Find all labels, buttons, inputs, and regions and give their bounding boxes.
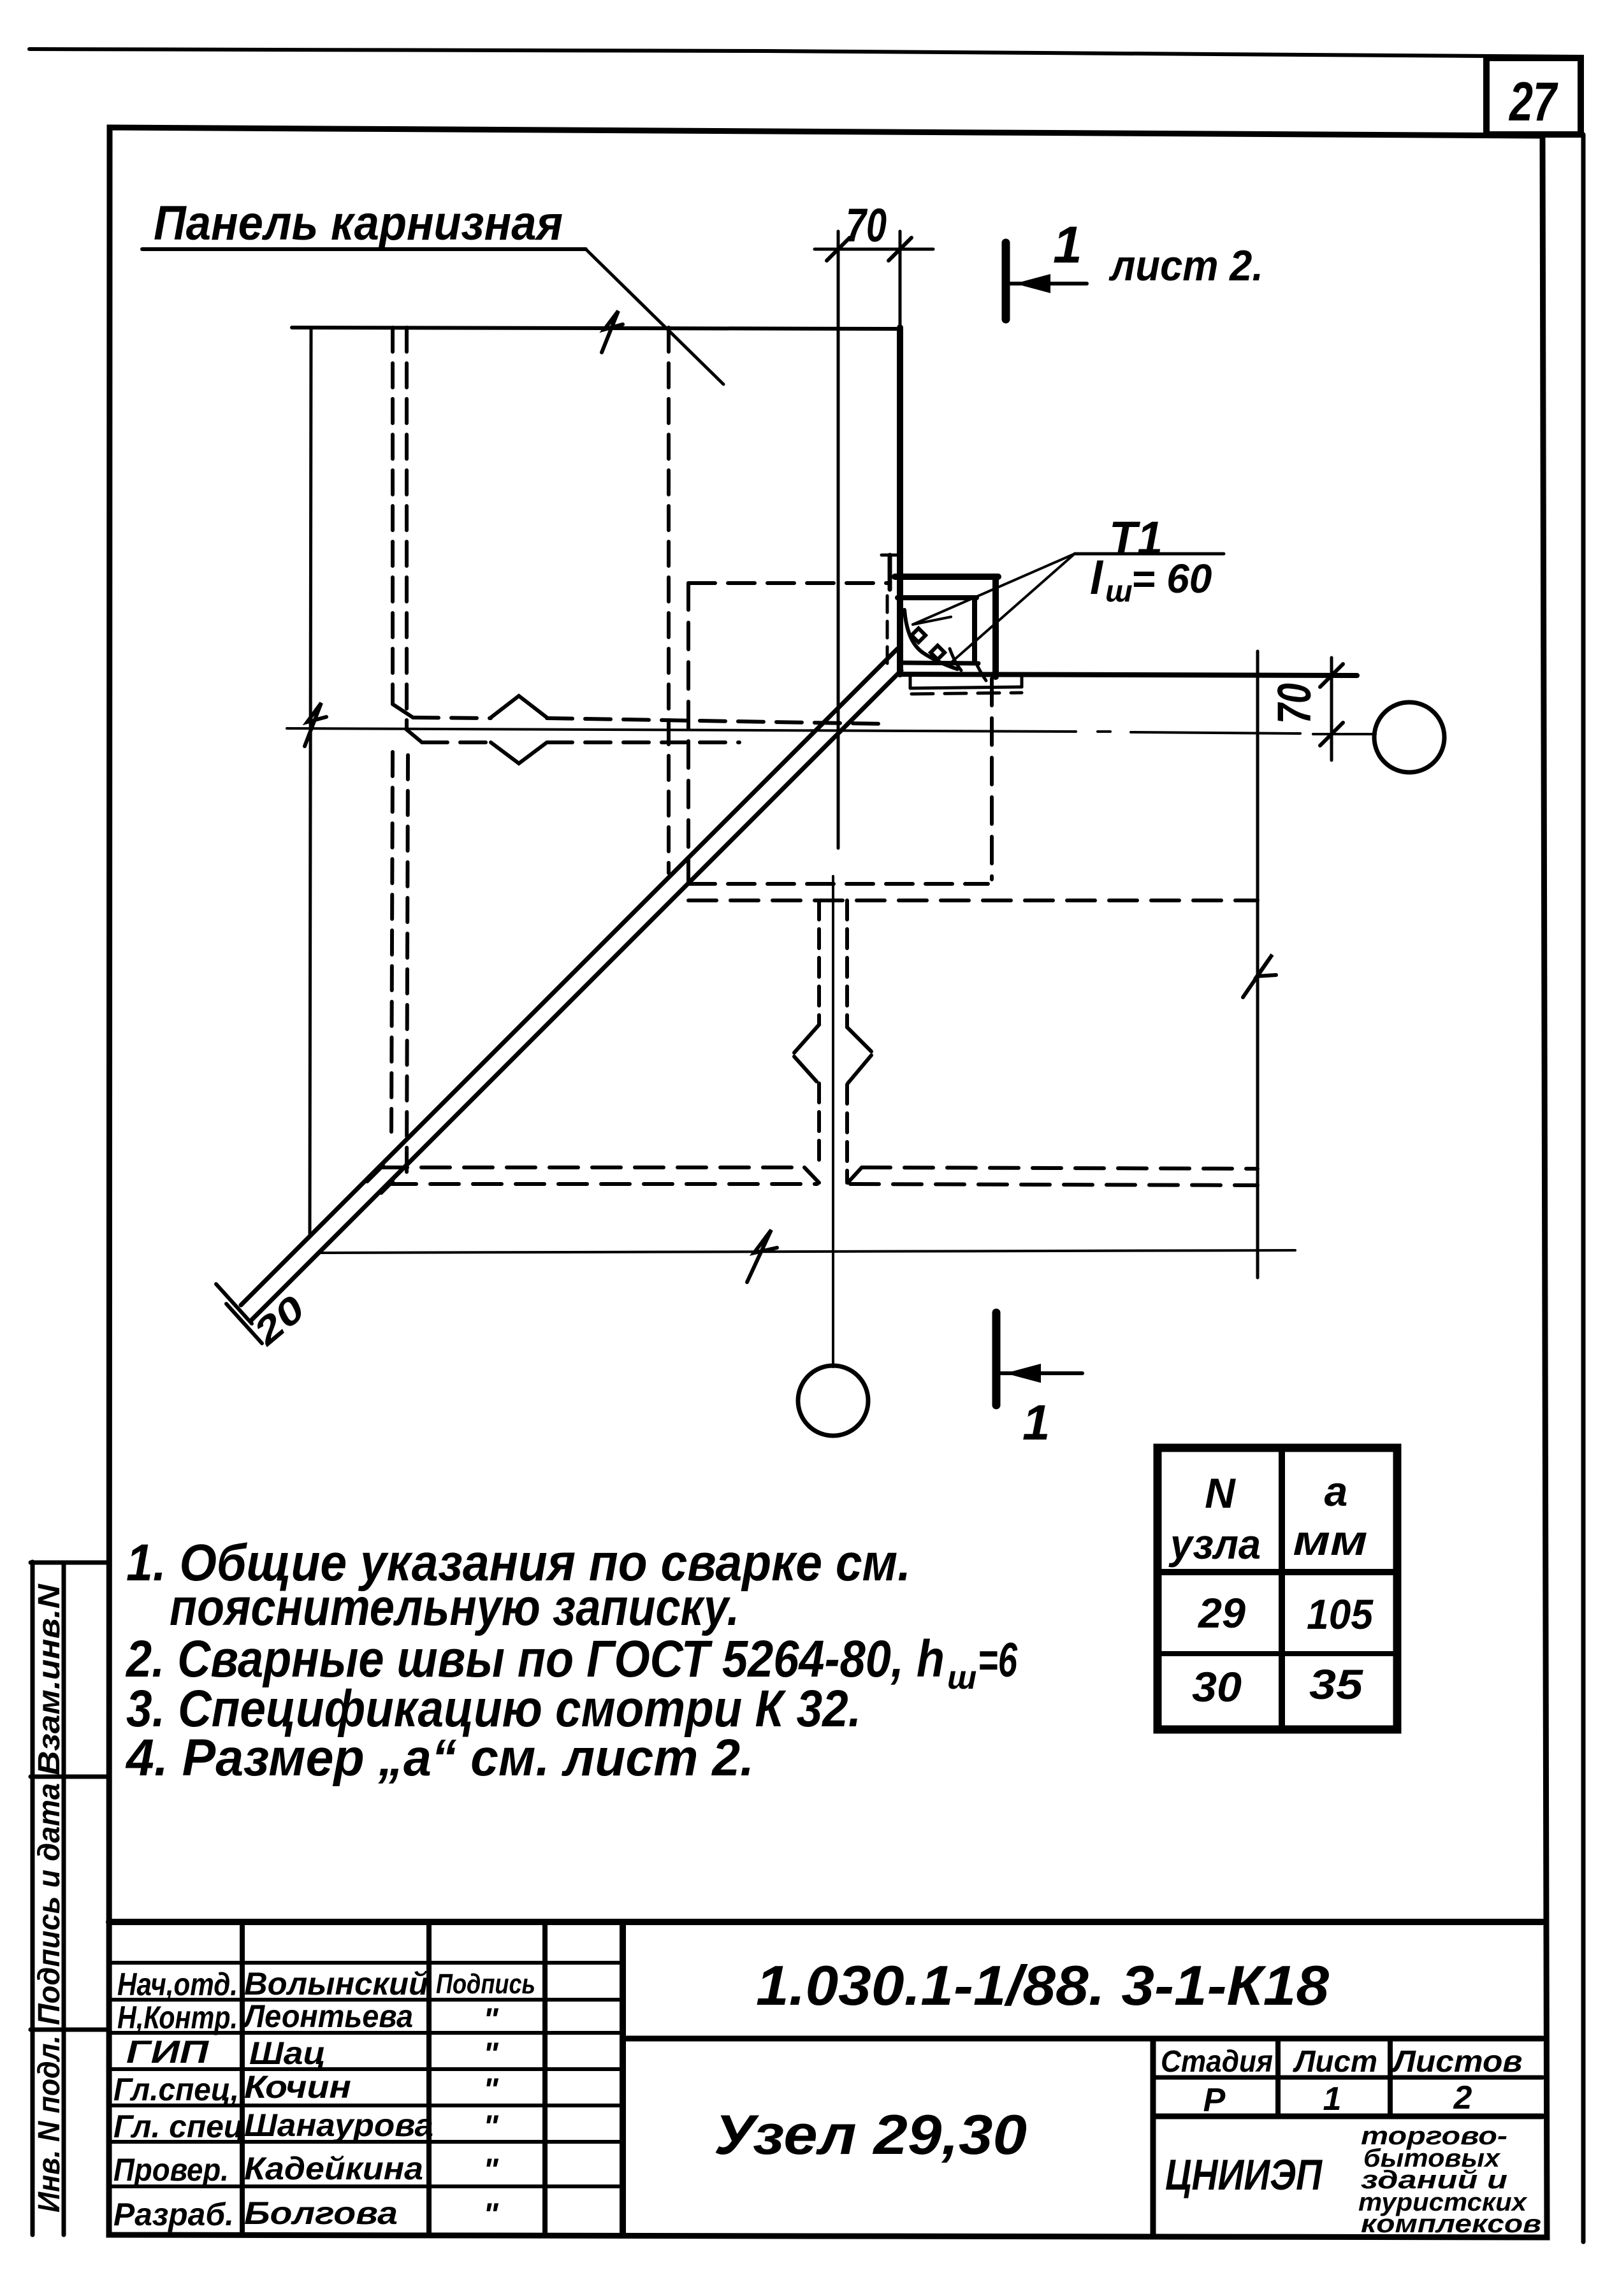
svg-text:Панель карнизная: Панель карнизная (154, 196, 563, 250)
leader lines (913, 554, 1075, 625)
svg-text:ЦНИИЭП: ЦНИИЭП (1165, 2151, 1323, 2199)
svg-text:Листов: Листов (1391, 2045, 1522, 2079)
nodes table (1158, 1448, 1397, 1729)
svg-text:": " (483, 2036, 499, 2072)
T1 weld detail (882, 512, 1357, 694)
hidden stub cap (882, 554, 899, 557)
corner bends of hidden edges (393, 704, 413, 718)
svg-text:1: 1 (1053, 216, 1082, 274)
hidden double edge (dashed) left pair (391, 328, 408, 1175)
svg-text:Провер.: Провер. (113, 2152, 229, 2188)
svg-text:узла: узла (1168, 1520, 1261, 1568)
break symbol on axis (305, 703, 326, 746)
vertical joint centerline (832, 876, 834, 1367)
svg-text:Леонтьева: Леонтьева (242, 1998, 413, 2034)
svg-text:": " (483, 2197, 499, 2232)
svg-text:105: 105 (1307, 1591, 1374, 1638)
weld diamonds (911, 628, 926, 642)
svg-text:Кадейкина: Кадейкина (244, 2151, 423, 2186)
title block grid (109, 1922, 1543, 2235)
svg-text:": " (483, 2109, 499, 2144)
axis centerline (287, 728, 1376, 734)
svg-text:Узел 29,30: Узел 29,30 (714, 2103, 1027, 2166)
svg-text:Р: Р (1203, 2082, 1226, 2119)
svg-text:1: 1 (1323, 2081, 1342, 2118)
svg-text:N: N (1205, 1469, 1236, 1517)
svg-text:Инв. N подл.: Инв. N подл. (33, 2035, 66, 2213)
svg-text:Шац: Шац (249, 2035, 326, 2071)
svg-text:70: 70 (1268, 683, 1321, 724)
thickness ticks and 20 label (216, 1284, 313, 1354)
axis circle right (1374, 702, 1444, 772)
wall bottom hidden edges (379, 1167, 1258, 1185)
svg-text:комплексов: комплексов (1361, 2210, 1541, 2238)
hidden horizontal edge lower with joint mark (422, 742, 739, 763)
angle outer box (895, 574, 998, 580)
left vertical edge line (310, 328, 311, 1237)
bend stubs where hidden edges meet diagonal (367, 1166, 383, 1181)
svg-text:Н,Контр.: Н,Контр. (117, 2000, 238, 2035)
svg-text:= 60: = 60 (1131, 556, 1212, 602)
break symbol on top edge (602, 311, 623, 352)
svg-text:Подпись и дата: Подпись и дата (33, 1783, 66, 2025)
svg-text:": " (483, 2002, 499, 2037)
svg-text:": " (483, 2152, 499, 2188)
support plate (909, 675, 912, 688)
svg-text:Разраб.: Разраб. (113, 2197, 234, 2232)
right broken edge line (1256, 651, 1260, 1278)
panel bottom edge long line (899, 674, 1357, 675)
panel top edge line (292, 328, 900, 329)
svg-text:1: 1 (1022, 1394, 1050, 1450)
svg-text:лист 2.: лист 2. (1108, 242, 1263, 290)
bottom reference line (317, 1250, 1295, 1253)
section mark 1 bottom (996, 1313, 1082, 1450)
notes text (125, 1534, 1017, 1787)
svg-text:l: l (1090, 553, 1104, 604)
dimension 70 top (815, 199, 933, 848)
svg-text:Гл.спец,: Гл.спец, (113, 2072, 239, 2107)
title block signature rows (113, 1966, 535, 2232)
svg-text:27: 27 (1508, 71, 1558, 133)
sheet number box (1486, 58, 1581, 134)
svg-text:Болгова: Болгова (244, 2195, 398, 2231)
panel right thick edge (897, 328, 903, 674)
svg-text:29: 29 (1197, 1589, 1245, 1636)
svg-text:Гл. спец: Гл. спец (113, 2109, 244, 2144)
label leader line (586, 249, 723, 384)
dimension 70 right (1268, 658, 1343, 760)
angle inner box (897, 595, 976, 600)
svg-text:Взам.инв.N: Взам.инв.N (33, 1584, 66, 1775)
sidebar stamp column lines (31, 1562, 109, 2235)
svg-text:": " (483, 2072, 499, 2107)
svg-text:70: 70 (846, 199, 887, 252)
svg-text:Лист: Лист (1293, 2045, 1377, 2079)
svg-text:пояснительную записку.: пояснительную записку. (170, 1578, 739, 1636)
hidden horizontal edge upper with joint mark (413, 696, 887, 724)
svg-text:Стадия: Стадия (1161, 2045, 1273, 2079)
svg-text:Нач,отд.: Нач,отд. (117, 1967, 238, 2002)
joint hidden edges with diamond (819, 900, 847, 1183)
svg-text:ш: ш (1105, 575, 1133, 609)
svg-text:Подпись: Подпись (436, 1968, 535, 2000)
cornice panel diagonal double line (241, 649, 897, 1305)
break symbol on bottom line (747, 1230, 777, 1282)
svg-text:2: 2 (1453, 2079, 1472, 2116)
stage header (1161, 2045, 1523, 2119)
break symbol on right edge (1243, 955, 1276, 997)
outer right border line (1581, 134, 1586, 2242)
svg-text:Волынский: Волынский (244, 1966, 428, 2002)
svg-text:1.030.1-1/88. 3-1-К18: 1.030.1-1/88. 3-1-К18 (756, 1954, 1329, 2017)
svg-text:30: 30 (1192, 1663, 1242, 1710)
hidden vertical edge (dashed) x1049 (667, 328, 671, 873)
svg-text:35: 35 (1309, 1661, 1363, 1708)
section mark 1 top (1006, 216, 1087, 319)
svg-text:ГИП: ГИП (126, 2034, 209, 2070)
svg-text:4. Размер „а“ см. лист 2.: 4. Размер „а“ см. лист 2. (125, 1729, 754, 1787)
svg-text:=6: =6 (978, 1633, 1018, 1687)
svg-text:мм: мм (1293, 1517, 1368, 1564)
svg-text:а: а (1325, 1468, 1348, 1515)
hidden panel outline (dashed rectangle) (688, 583, 992, 884)
top rule line (29, 49, 1581, 57)
weld seam arcs (904, 610, 957, 669)
wall top hidden edge (688, 899, 1258, 902)
label underline (142, 247, 586, 251)
axis circle bottom (798, 1366, 868, 1436)
svg-text:ш: ш (947, 1659, 976, 1696)
svg-text:Кочин: Кочин (244, 2069, 351, 2105)
svg-text:Шанаурова: Шанаурова (244, 2107, 433, 2143)
